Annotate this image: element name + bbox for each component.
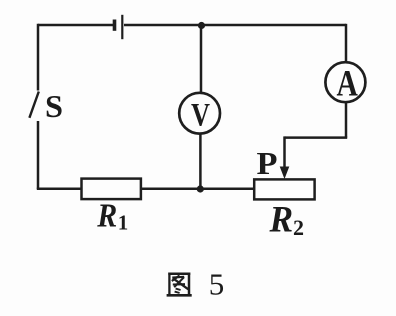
svg-text:P: P xyxy=(257,146,278,181)
svg-text:R: R xyxy=(96,197,117,234)
svg-text:V: V xyxy=(191,98,210,134)
svg-text:5: 5 xyxy=(209,266,225,301)
svg-text:S: S xyxy=(45,89,63,124)
svg-text:2: 2 xyxy=(293,215,304,240)
svg-text:A: A xyxy=(337,64,359,105)
svg-text:R: R xyxy=(269,200,294,241)
svg-text:1: 1 xyxy=(118,210,129,234)
